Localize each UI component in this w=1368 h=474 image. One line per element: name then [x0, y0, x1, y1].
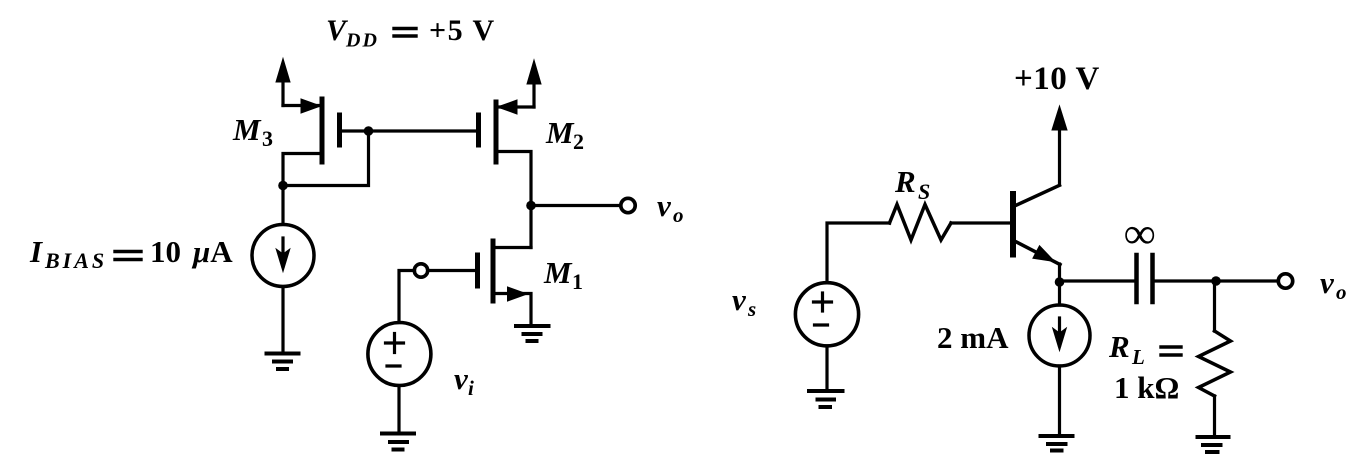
svg-text:3: 3	[262, 126, 273, 151]
transistor M3	[283, 99, 340, 186]
svg-text:+10 V: +10 V	[1014, 61, 1100, 97]
ground under vi	[382, 434, 414, 450]
svg-text:M: M	[545, 115, 575, 150]
svg-text:v: v	[657, 188, 672, 223]
svg-text:∞: ∞	[1124, 209, 1155, 258]
svg-text:1 kΩ: 1 kΩ	[1114, 370, 1179, 405]
svg-text:1: 1	[572, 269, 583, 294]
label vo right	[1320, 265, 1347, 304]
resistor RS	[890, 205, 952, 241]
node gate junction	[364, 126, 374, 136]
node M3 drain	[278, 181, 288, 191]
svg-text:BIAS: BIAS	[44, 248, 107, 273]
wire output node to M1 drain	[529, 206, 532, 248]
label M3	[232, 112, 273, 151]
wire capacitor to output node	[1155, 279, 1216, 282]
svg-text:S: S	[918, 179, 930, 204]
label vi	[454, 361, 474, 400]
source vi	[368, 323, 431, 386]
svg-text:v: v	[1320, 265, 1335, 300]
ground under IBIAS	[267, 354, 299, 370]
capacitor Cinf	[1137, 255, 1153, 302]
wire drain feedback M3	[283, 131, 369, 186]
terminal vi	[414, 264, 427, 277]
svg-text:I: I	[29, 234, 43, 269]
svg-text:v: v	[454, 361, 469, 396]
current source IBIAS	[252, 225, 314, 287]
label RL = 1 kOhm	[1108, 329, 1181, 405]
label vs	[732, 282, 756, 321]
wire output to terminal	[531, 204, 621, 207]
wire emitter node to capacitor	[1060, 279, 1135, 282]
wire vs to RS	[827, 223, 890, 283]
svg-text:DD: DD	[345, 30, 379, 52]
transistor M1	[428, 241, 532, 325]
transistor Q1	[1013, 185, 1060, 282]
wire IBIAS to ground	[281, 287, 284, 353]
label 2 mA	[937, 320, 1009, 355]
wire node to IBIAS	[281, 186, 284, 225]
svg-text:o: o	[673, 203, 684, 227]
ground under 2mA	[1041, 436, 1073, 451]
label vo left	[657, 188, 684, 227]
svg-text:10: 10	[150, 234, 181, 269]
ground under vs	[809, 391, 843, 407]
power arrow VDD M2	[527, 60, 541, 107]
power arrow +10V	[1052, 106, 1067, 185]
wire base lead	[951, 221, 1010, 224]
node output right	[1211, 276, 1221, 286]
label VDD = +5 V	[326, 14, 496, 52]
wire vi source to terminal	[399, 271, 415, 323]
svg-text:R: R	[894, 164, 916, 199]
terminal vo right	[1278, 274, 1292, 288]
svg-text:M: M	[543, 255, 573, 290]
svg-text:M: M	[232, 112, 262, 147]
node output left	[526, 201, 536, 211]
svg-text:μA: μA	[191, 234, 233, 269]
svg-text:o: o	[1336, 280, 1347, 304]
svg-text:2 mA: 2 mA	[937, 320, 1009, 355]
svg-text:s: s	[747, 297, 756, 321]
label M1	[543, 255, 583, 294]
power arrow VDD M3	[276, 59, 290, 106]
label RS	[894, 164, 930, 204]
ground under M1	[516, 326, 549, 341]
source vs	[795, 283, 858, 346]
wire vi to ground	[397, 386, 400, 433]
label IBIAS = 10 uA	[29, 234, 233, 273]
wire vs to ground	[825, 346, 828, 390]
transistor M2	[479, 100, 535, 206]
wire output node to RL	[1213, 281, 1216, 331]
wire RL to ground	[1213, 396, 1216, 436]
svg-text:L: L	[1131, 345, 1145, 369]
terminal vo left	[621, 198, 635, 212]
wire gate M3 to gate M2	[342, 129, 476, 132]
label +10 V	[1014, 61, 1100, 97]
wire 2mA to ground	[1058, 366, 1061, 435]
wire node to terminal right	[1216, 279, 1278, 282]
svg-text:R: R	[1108, 329, 1130, 364]
current source 2mA	[1029, 305, 1090, 366]
node emitter	[1055, 277, 1065, 287]
svg-text:v: v	[732, 282, 747, 317]
svg-text:i: i	[468, 376, 474, 400]
svg-text:+5 V: +5 V	[429, 14, 496, 47]
resistor RL	[1199, 331, 1231, 396]
ground under RL	[1198, 437, 1229, 452]
wire node to 2mA source	[1058, 282, 1061, 305]
label M2	[545, 115, 584, 154]
label infinity	[1124, 209, 1155, 258]
svg-text:2: 2	[573, 129, 584, 154]
